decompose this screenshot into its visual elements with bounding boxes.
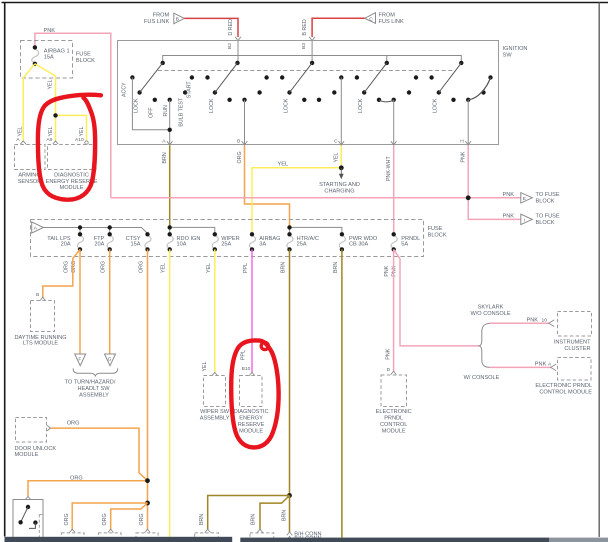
bottom partial module box 3 bbox=[145, 529, 151, 532]
svg-text:10A: 10A bbox=[177, 241, 187, 247]
svg-text:F: F bbox=[78, 357, 81, 363]
instrument cluster box bbox=[558, 312, 592, 337]
wire PNK main bus horizontal bbox=[111, 197, 521, 199]
svg-text:PNK: PNK bbox=[460, 151, 466, 162]
terminal A arming sensor bbox=[20, 141, 26, 144]
terminal wiper sw bbox=[212, 372, 218, 375]
wire PNK terminal H down to junction bbox=[467, 146, 469, 198]
svg-text:D: D bbox=[387, 367, 391, 373]
svg-text:START: START bbox=[186, 81, 192, 99]
svg-text:CLUSTER: CLUSTER bbox=[564, 346, 590, 352]
fuse HTR/A-C 25A bbox=[287, 232, 319, 251]
wire BRN pwr wdo long vertical bbox=[341, 249, 343, 537]
wire YEL airbag1 fuse to DERM A9 and A10 bbox=[35, 64, 87, 141]
bottom partial module box 1 bbox=[69, 529, 75, 532]
wire BRN branch to bottom box 5 bbox=[260, 496, 290, 530]
annotation red circle 1 around upper DERM bbox=[38, 95, 101, 200]
junction PNK bbox=[466, 195, 471, 200]
svg-text:YEL: YEL bbox=[206, 263, 212, 273]
bottom partial module box 2 bbox=[108, 529, 114, 532]
terminal B/H CONN bbox=[287, 532, 293, 535]
svg-text:YEL: YEL bbox=[18, 126, 24, 136]
wire bus in fuse block (A to CTSY) bbox=[43, 228, 147, 235]
svg-text:BULB TEST: BULB TEST bbox=[179, 97, 185, 127]
fuse block 2 dashed box bbox=[31, 220, 424, 257]
wire ORG door unlock branch bbox=[50, 428, 147, 481]
svg-text:HEADLT SW: HEADLT SW bbox=[77, 386, 110, 392]
terminal A10 bbox=[85, 141, 88, 144]
wire PPL airbag fuse to lower DERM bbox=[251, 249, 253, 372]
bottom partial module box 4 bbox=[205, 529, 211, 532]
svg-text:ORG: ORG bbox=[101, 261, 107, 273]
fuse PRNDL 5A bbox=[391, 232, 420, 251]
svg-text:PNK: PNK bbox=[392, 265, 398, 276]
svg-text:BRN: BRN bbox=[162, 152, 168, 163]
terminal A9 bbox=[53, 141, 59, 144]
daytime running lts module box bbox=[31, 301, 55, 332]
svg-text:LOCK: LOCK bbox=[433, 98, 439, 113]
junction ctsy/door unlock bbox=[145, 478, 150, 483]
svg-text:C: C bbox=[369, 16, 373, 22]
svg-text:LOCK: LOCK bbox=[134, 98, 140, 113]
svg-text:CONTROL MODULE: CONTROL MODULE bbox=[539, 390, 592, 396]
wire gang5 run-bulb-start arc bbox=[468, 78, 490, 100]
ignition gang 3 contacts bbox=[280, 61, 343, 102]
svg-text:AIRBAG 1: AIRBAG 1 bbox=[44, 48, 70, 54]
wire ORG ctsy long vertical with junctions bbox=[147, 249, 149, 529]
svg-text:G: G bbox=[108, 357, 112, 363]
svg-text:ELECTRONIC PRNDL: ELECTRONIC PRNDL bbox=[535, 383, 592, 389]
svg-text:SKYLARK: SKYLARK bbox=[478, 305, 504, 311]
svg-text:3A: 3A bbox=[259, 241, 266, 247]
svg-text:TO FUSE: TO FUSE bbox=[536, 192, 560, 198]
ignition switch box bbox=[118, 41, 499, 145]
svg-text:RESERVE: RESERVE bbox=[238, 422, 265, 428]
svg-text:B2: B2 bbox=[227, 43, 233, 49]
svg-text:C: C bbox=[334, 138, 338, 144]
svg-text:MODULE: MODULE bbox=[60, 185, 84, 191]
wire BRN htr fuse long vertical to junction bbox=[289, 249, 291, 495]
svg-text:D RED: D RED bbox=[228, 19, 234, 36]
wire accy-run link to terminal A bbox=[132, 78, 169, 147]
terminal B2 arrow bbox=[235, 37, 241, 41]
svg-text:INSTRUMENT: INSTRUMENT bbox=[554, 340, 591, 346]
terminal instrument cluster bbox=[549, 320, 555, 327]
module box (cut off, bottom bar right) bbox=[240, 538, 549, 542]
svg-text:B RED: B RED bbox=[302, 19, 308, 35]
svg-text:RUN: RUN bbox=[163, 105, 169, 117]
page border left bbox=[4, 3, 6, 537]
svg-text:A10: A10 bbox=[75, 137, 84, 143]
from fus link terminal (left) bbox=[174, 13, 185, 24]
svg-text:ASSEMBLY: ASSEMBLY bbox=[79, 392, 109, 398]
wire ORG tail lps to daytime running module bbox=[43, 249, 80, 297]
wire PNK-WHT terminal D to PRNDL fuse bbox=[393, 146, 395, 233]
terminal B daytime running bbox=[40, 297, 46, 300]
svg-text:B10: B10 bbox=[242, 366, 251, 372]
svg-text:B: B bbox=[36, 292, 39, 298]
wire YEL rdo ign long vertical bbox=[169, 249, 171, 537]
wire YEL wiper to wiper sw assembly bbox=[214, 249, 216, 372]
terminal D arrow bbox=[391, 141, 397, 145]
wire PNK to electronic prndl control module (right) bbox=[489, 366, 551, 368]
svg-text:H: H bbox=[460, 138, 464, 144]
terminal B3 arrow bbox=[309, 37, 315, 41]
svg-text:10: 10 bbox=[542, 317, 548, 323]
terminal B arrow bbox=[242, 141, 248, 145]
wire BRN terminal A to RDO IGN fuse bbox=[169, 146, 171, 228]
svg-text:FUS LINK: FUS LINK bbox=[144, 19, 169, 25]
svg-text:20A: 20A bbox=[61, 241, 71, 247]
svg-text:YEL: YEL bbox=[278, 161, 289, 167]
svg-text:BRN: BRN bbox=[251, 514, 257, 525]
junction BRN bbox=[287, 493, 292, 498]
to fuse block terminal I bbox=[521, 214, 533, 224]
svg-text:ORG: ORG bbox=[64, 261, 70, 273]
svg-text:W/ CONSOLE: W/ CONSOLE bbox=[464, 375, 500, 381]
svg-text:LTS MODULE: LTS MODULE bbox=[23, 341, 59, 347]
svg-text:YEL: YEL bbox=[48, 79, 54, 89]
wire PNK prndl to console brace bbox=[394, 249, 480, 346]
terminal A arrow bbox=[167, 141, 173, 145]
page border right bbox=[598, 3, 600, 538]
ignition gang 2 contacts bbox=[205, 61, 268, 102]
svg-text:ELECTRONIC: ELECTRONIC bbox=[376, 409, 412, 415]
svg-text:ORG: ORG bbox=[102, 513, 108, 525]
svg-text:B3: B3 bbox=[301, 43, 307, 49]
fuse AIRBAG 1 15A bbox=[32, 49, 39, 63]
terminal C arrow bbox=[339, 141, 345, 145]
fuse RDO IGN 10A bbox=[167, 232, 200, 251]
module box (cut off, bottom bar light) bbox=[549, 538, 608, 542]
svg-text:20A: 20A bbox=[94, 241, 104, 247]
svg-text:STARTING AND: STARTING AND bbox=[319, 182, 360, 188]
svg-text:ORG: ORG bbox=[71, 261, 77, 273]
wire bus inside ignition switch bbox=[163, 41, 462, 63]
ignition gang 5 contacts bbox=[429, 61, 492, 102]
svg-text:BRN: BRN bbox=[333, 262, 339, 273]
wire ORG to bottom box 2 bbox=[111, 503, 148, 530]
wire ORG to bottom box 1 bbox=[72, 503, 147, 530]
terminal into switch box bbox=[25, 496, 31, 499]
wire ORG tail lps to triangle F bbox=[79, 249, 81, 354]
svg-text:PNK: PNK bbox=[384, 265, 390, 276]
wire PNK to instrument cluster bbox=[489, 322, 549, 324]
svg-text:PNK: PNK bbox=[527, 317, 539, 323]
svg-text:ACCY: ACCY bbox=[122, 82, 128, 97]
svg-text:ORG: ORG bbox=[70, 475, 83, 481]
svg-text:YEL: YEL bbox=[202, 361, 208, 371]
diagnostic energy reserve module box (lower) bbox=[240, 376, 263, 407]
wire ORG terminal B to HTR fuse bbox=[245, 146, 290, 228]
terminal H arrow bbox=[465, 141, 471, 145]
svg-text:ASSEMBLY: ASSEMBLY bbox=[200, 416, 230, 422]
svg-text:BLOCK: BLOCK bbox=[536, 220, 555, 226]
svg-text:ORG: ORG bbox=[139, 513, 145, 525]
wire ORG ftp to triangle G bbox=[109, 249, 111, 354]
bottom partial module box 5 bbox=[257, 529, 263, 532]
terminal triangle F bbox=[75, 354, 86, 366]
svg-text:FUSE: FUSE bbox=[428, 226, 443, 232]
wire PNK prndl to electronic prndl control module bbox=[393, 249, 395, 371]
junction 2 orange distribution bbox=[145, 501, 150, 506]
diagnostic energy reserve module box (upper) bbox=[48, 145, 97, 170]
svg-text:TO FUSE: TO FUSE bbox=[536, 213, 560, 219]
svg-text:SW: SW bbox=[503, 52, 513, 58]
fuse PWR WDO CB 30A bbox=[339, 232, 378, 251]
brace under triangles bbox=[73, 368, 118, 376]
fuse FTP 20A bbox=[94, 232, 113, 251]
ignition gang 1 contacts bbox=[130, 61, 194, 102]
wire gang5 run to terminal H bbox=[467, 100, 469, 146]
svg-text:DIAGNOSTIC: DIAGNOSTIC bbox=[234, 409, 269, 415]
svg-text:YEL: YEL bbox=[161, 263, 167, 273]
arrow to starting and charging bbox=[340, 168, 344, 178]
junction yel starting and charging bbox=[339, 165, 344, 170]
svg-text:15A: 15A bbox=[44, 54, 54, 60]
terminal electronic prndl right bbox=[551, 364, 557, 371]
svg-text:W/O CONSOLE: W/O CONSOLE bbox=[470, 311, 510, 317]
ignition gang 4 contacts bbox=[355, 61, 419, 102]
svg-text:FUS LINK: FUS LINK bbox=[379, 19, 404, 25]
wire gang2 run to terminal B bbox=[244, 100, 246, 146]
wire YEL airbag1 fuse to arming sensor bbox=[23, 64, 35, 141]
fuse WIPER 25A bbox=[212, 232, 239, 251]
svg-text:FUSE: FUSE bbox=[76, 52, 91, 58]
svg-text:ARMING: ARMING bbox=[18, 173, 40, 179]
wire gang4 off-run bridge bbox=[379, 100, 394, 102]
svg-text:ENERGY: ENERGY bbox=[239, 415, 263, 421]
svg-text:PRNDL: PRNDL bbox=[384, 416, 403, 422]
wire BRN branch to bottom box 4 bbox=[208, 496, 290, 530]
wiper sw assembly box bbox=[204, 376, 226, 407]
wire gang3 start to terminal C bbox=[340, 78, 342, 147]
wire BRN continue to B/H CONN bbox=[289, 496, 291, 533]
door unlock module box bbox=[16, 418, 47, 443]
arming sensor module box bbox=[15, 145, 46, 170]
mechanical link dashed bbox=[158, 70, 455, 72]
svg-text:PNK-WHT: PNK-WHT bbox=[386, 156, 392, 181]
svg-text:BRN: BRN bbox=[281, 262, 287, 273]
wire bus HTR to PWR WDO bbox=[290, 227, 342, 234]
svg-text:TO TURN/HAZARD/: TO TURN/HAZARD/ bbox=[65, 379, 116, 385]
svg-text:PPL: PPL bbox=[243, 263, 249, 273]
svg-text:ORG: ORG bbox=[139, 261, 145, 273]
to fuse block terminal E bbox=[521, 193, 533, 203]
wire YEL terminal C to junction and AIRBAG fuse bbox=[252, 146, 341, 233]
svg-text:BLOCK: BLOCK bbox=[536, 198, 555, 204]
svg-text:CONTROL: CONTROL bbox=[380, 422, 407, 428]
annotation red circle 2 around lower DERM bbox=[231, 340, 278, 447]
svg-text:MODULE: MODULE bbox=[15, 452, 39, 458]
wire B RED from fus link to ignition B3 bbox=[312, 18, 365, 37]
svg-text:BLOCK: BLOCK bbox=[428, 232, 447, 238]
svg-text:A9: A9 bbox=[46, 137, 52, 143]
svg-text:LOCK: LOCK bbox=[358, 98, 364, 113]
svg-text:PNK: PNK bbox=[502, 214, 514, 220]
svg-text:YEL: YEL bbox=[48, 126, 54, 136]
svg-text:YEL: YEL bbox=[79, 126, 85, 136]
terminal triangle G bbox=[105, 354, 116, 366]
svg-text:MODULE: MODULE bbox=[382, 429, 406, 435]
svg-text:LOCK: LOCK bbox=[283, 98, 289, 113]
page border top bbox=[2, 2, 608, 4]
svg-text:25A: 25A bbox=[221, 241, 231, 247]
svg-text:BLOCK: BLOCK bbox=[76, 58, 95, 64]
junction yellow split bbox=[53, 113, 57, 117]
brace skylark options bbox=[479, 323, 490, 367]
fuse block 1 dashed box bbox=[21, 41, 73, 79]
svg-text:IGNITION: IGNITION bbox=[503, 46, 528, 52]
svg-text:ORG: ORG bbox=[67, 420, 80, 426]
wire PNK branch to second fuse-block arrow bbox=[468, 198, 521, 220]
svg-text:B: B bbox=[237, 138, 240, 144]
svg-text:25A: 25A bbox=[297, 241, 307, 247]
svg-text:I: I bbox=[524, 218, 525, 224]
svg-text:15A: 15A bbox=[131, 241, 141, 247]
svg-text:5A: 5A bbox=[401, 241, 408, 247]
electronic prndl control module box (right) bbox=[558, 358, 592, 381]
svg-text:MODULE: MODULE bbox=[239, 429, 263, 435]
terminal electronic prndl bbox=[391, 371, 397, 374]
svg-text:CB 30A: CB 30A bbox=[349, 241, 369, 247]
fuse TAIL LPS 20A bbox=[47, 232, 83, 251]
module box (cut off, bottom bar left) bbox=[5, 537, 233, 542]
wire D RED from fus link to ignition B2 bbox=[184, 18, 238, 37]
electronic prndl control module box (left) bbox=[381, 375, 407, 407]
svg-text:FROM: FROM bbox=[379, 13, 396, 19]
svg-text:PNK: PNK bbox=[535, 362, 547, 368]
wire PNK feed to airbag1 fuse from pink bus bbox=[35, 33, 111, 198]
svg-text:PNK: PNK bbox=[385, 348, 391, 359]
fuse AIRBAG 3A bbox=[249, 232, 280, 251]
svg-text:PNK: PNK bbox=[44, 28, 56, 34]
svg-text:CHARGING: CHARGING bbox=[324, 188, 354, 194]
svg-text:ORG: ORG bbox=[64, 513, 70, 525]
svg-text:YEL: YEL bbox=[334, 152, 340, 162]
svg-text:BRN: BRN bbox=[199, 514, 205, 525]
terminal door unlock bbox=[47, 425, 50, 431]
svg-text:OFF: OFF bbox=[148, 107, 154, 118]
svg-text:PPL: PPL bbox=[241, 350, 247, 360]
svg-text:B: B bbox=[176, 16, 179, 22]
terminal A triangle in fuse block bbox=[32, 222, 44, 233]
svg-text:BRN: BRN bbox=[282, 510, 288, 521]
fuse CTSY 15A bbox=[126, 232, 151, 251]
wire bus RDO IGN to WIPER bbox=[170, 227, 215, 234]
svg-text:SENSOR: SENSOR bbox=[18, 179, 42, 185]
bottom-left switch box bbox=[13, 500, 43, 538]
svg-text:WIPER SW: WIPER SW bbox=[200, 409, 230, 415]
svg-text:DIAGNOSTIC: DIAGNOSTIC bbox=[54, 173, 89, 179]
svg-text:LOCK: LOCK bbox=[209, 98, 215, 113]
from fus link terminal (right) bbox=[365, 13, 376, 24]
wire ORG branch to bottom-left switch box bbox=[28, 481, 148, 497]
svg-text:PNK: PNK bbox=[502, 192, 514, 198]
svg-text:FROM: FROM bbox=[153, 13, 170, 19]
wire gang4 run to terminal D bbox=[393, 100, 395, 146]
svg-text:ORG: ORG bbox=[237, 151, 243, 163]
